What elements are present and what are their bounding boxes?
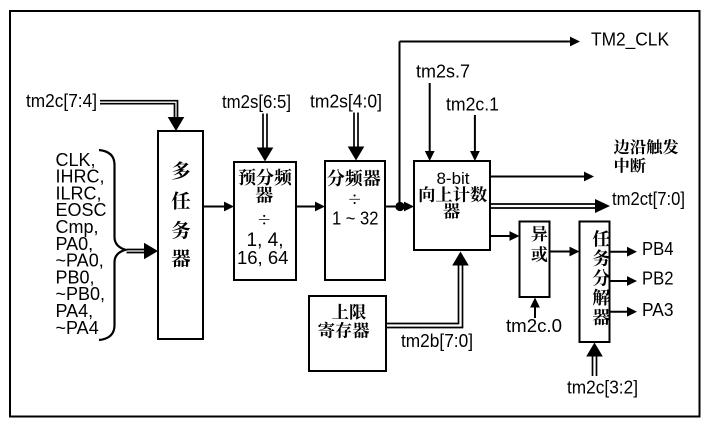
svg-text:~PA4: ~PA4 <box>56 318 99 338</box>
node: junction dot on divider-counter wire <box>395 202 404 211</box>
svg-text:8-bit: 8-bit <box>436 169 469 188</box>
wire: decomposer to PA3 <box>610 307 638 317</box>
label tm2s[4:0] <box>310 92 382 112</box>
wire: tm2s.7 into counter top <box>425 83 435 161</box>
bus: bound register to counter bottom <box>386 252 469 328</box>
bus: tm2ct[7:0] output <box>490 199 610 213</box>
brace for clock source list <box>99 150 126 340</box>
text: decomposer label (vertical) <box>593 230 610 325</box>
block: prescaler (yu-fen-pin-qi) <box>234 162 296 280</box>
text: bound register label <box>318 304 369 338</box>
svg-text:tm2c.0: tm2c.0 <box>506 316 562 336</box>
wire: tm2c.0 into XOR bottom <box>530 298 540 319</box>
label tm2ct[7:0] <box>612 189 685 209</box>
label tm2b[7:0] <box>401 331 473 351</box>
svg-text:PB2: PB2 <box>642 268 674 289</box>
wire: mux to prescaler <box>203 202 234 212</box>
label tm2c.1 <box>446 95 499 115</box>
label tm2c[3:2] <box>567 378 638 398</box>
svg-text:tm2c[7:4]: tm2c[7:4] <box>26 91 97 111</box>
svg-text:1 ~ 32: 1 ~ 32 <box>332 208 379 229</box>
node: clock source list <box>56 150 107 338</box>
wire: decomposer to PB2 <box>610 276 638 286</box>
wire: tm2c.1 into counter top <box>470 115 480 161</box>
label tm2s.7 <box>416 62 470 82</box>
bus: clock sources into mux <box>127 243 159 260</box>
text: mux label duo ren wu qi (vertical) <box>172 161 191 267</box>
label PB4 <box>642 238 674 259</box>
svg-text:tm2s[4:0]: tm2s[4:0] <box>310 92 382 112</box>
wire: prescaler to divider <box>296 202 325 212</box>
wire: counter to XOR <box>490 231 520 241</box>
text: XOR label (vertical) <box>531 226 547 262</box>
text: prescaler label <box>237 168 291 268</box>
label tm2c[7:4] <box>26 91 97 111</box>
label PB2 <box>642 268 674 289</box>
bus: tm2c[7:4] into mux top <box>100 101 184 131</box>
wire: XOR to decomposer <box>550 247 580 257</box>
bus: tm2c[3:2] into decomposer bottom <box>586 343 603 377</box>
wire: junction riser to TM2_CLK <box>399 42 401 207</box>
bus: tm2s[6:5] into prescaler top <box>257 114 274 162</box>
svg-text:TM2_CLK: TM2_CLK <box>591 30 669 51</box>
label tm2c.0 <box>506 316 562 336</box>
label: edge-triggered interrupt (bian yan chu fa / zhong duan) <box>614 139 678 173</box>
label tm2s[6:5] <box>222 92 291 112</box>
svg-text:tm2c[3:2]: tm2c[3:2] <box>567 378 638 398</box>
bus: tm2s[4:0] into divider top <box>348 113 365 161</box>
text: divider label <box>327 169 380 228</box>
block: 8-bit up counter <box>414 161 490 250</box>
wire: counter to edge interrupt <box>490 172 594 182</box>
wire: decomposer to PB4 <box>610 247 638 257</box>
wire: divider to counter <box>385 202 414 212</box>
svg-text:tm2ct[7:0]: tm2ct[7:0] <box>612 189 685 209</box>
svg-text:PA3: PA3 <box>642 299 674 320</box>
block: XOR (yi-huo) <box>520 222 550 298</box>
svg-text:tm2c.1: tm2c.1 <box>446 95 499 115</box>
block: multiplexer (duo-ren-wu-qi) <box>158 131 203 339</box>
wire: TM2_CLK output <box>400 37 581 47</box>
svg-text:tm2s.7: tm2s.7 <box>416 62 470 82</box>
block: task decomposer (ren-wu-fen-jie-qi) <box>580 222 610 343</box>
block: bound register (shang-xian-ji-cun-qi) <box>309 296 386 371</box>
svg-text:16, 64: 16, 64 <box>237 247 288 268</box>
svg-text:tm2b[7:0]: tm2b[7:0] <box>401 331 473 351</box>
block: divider (fen-pin-qi) <box>325 161 385 280</box>
label PA3 <box>642 299 674 320</box>
svg-text:tm2s[6:5]: tm2s[6:5] <box>222 92 291 112</box>
svg-text:PB4: PB4 <box>642 238 674 259</box>
label TM2_CLK <box>591 30 669 51</box>
text: counter label <box>420 169 487 219</box>
